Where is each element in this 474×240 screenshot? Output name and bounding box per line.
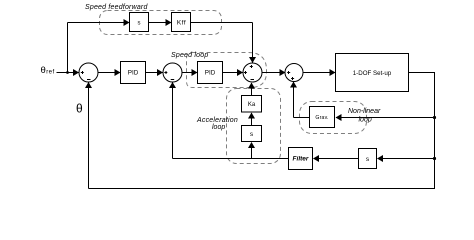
svg-text:Ka: Ka (248, 102, 256, 108)
svg-text:ref: ref (46, 70, 55, 76)
svg-text:1-DOF Set-up: 1-DOF Set-up (353, 70, 392, 77)
svg-text:Non-linear: Non-linear (348, 108, 381, 115)
svg-text:Filter: Filter (293, 156, 309, 163)
svg-text:θ: θ (41, 65, 46, 76)
svg-text:PID: PID (205, 70, 216, 77)
svg-text:PID: PID (128, 70, 139, 77)
svg-text:Acceleration: Acceleration (196, 117, 238, 124)
svg-text:loop: loop (359, 117, 372, 124)
svg-text:Speed feedforward: Speed feedforward (85, 4, 148, 11)
svg-text:Kff: Kff (177, 20, 186, 27)
svg-text:Grav.: Grav. (315, 115, 328, 121)
svg-text:θ: θ (76, 102, 83, 116)
svg-text:s: s (138, 21, 141, 27)
svg-text:Speed loop: Speed loop (171, 52, 208, 59)
svg-text:loop: loop (212, 124, 225, 131)
